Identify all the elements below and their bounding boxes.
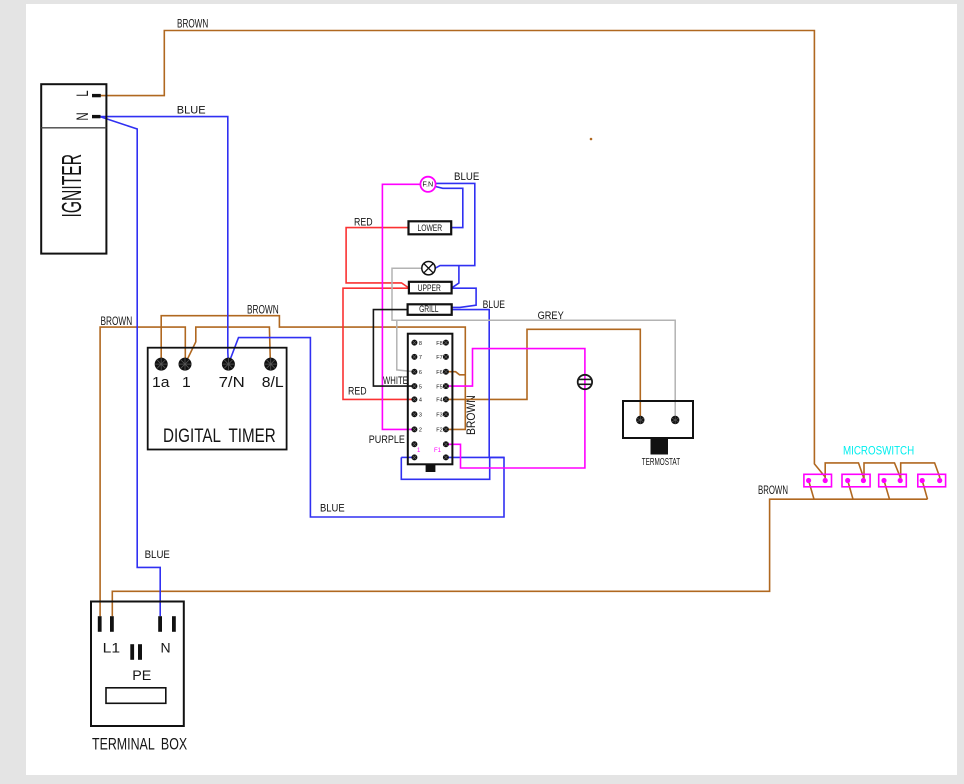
svg-text:BROWN: BROWN <box>101 316 133 329</box>
label BLUE (terminal box) <box>145 550 170 562</box>
svg-text:RED: RED <box>348 385 367 397</box>
svg-text:IGNITER: IGNITER <box>56 154 87 218</box>
svg-text:7: 7 <box>419 355 422 361</box>
timer terminal 8/L <box>262 358 284 391</box>
microswitch SW3 <box>879 474 907 487</box>
label GREY <box>538 310 564 322</box>
svg-text:LOWER: LOWER <box>417 223 442 233</box>
grill element GRILL <box>408 304 452 315</box>
wire blue igniter N to timer 7/N <box>100 117 228 365</box>
label BLUE (grill) <box>483 299 506 311</box>
svg-text:TERMINAL BOX: TERMINAL BOX <box>92 736 187 754</box>
svg-text:F4: F4 <box>436 398 442 404</box>
svg-text:F8: F8 <box>436 341 442 347</box>
terminal box terminal L1 pair <box>98 616 120 656</box>
label BLUE (igniter) <box>177 105 206 117</box>
wire brown connector pin F4 to thermostat left terminal <box>446 329 640 420</box>
terminal box <box>91 602 187 755</box>
wire brown timer terminal 1a to connector pins F6/F2 <box>161 316 465 430</box>
wire grey lamp to thermostat right terminal <box>392 268 675 420</box>
wire red LOWER left to UPPER left <box>346 228 409 288</box>
svg-text:BLUE: BLUE <box>145 550 170 562</box>
lamp <box>422 262 435 275</box>
wire grey branch to connector pin 6 <box>397 320 415 371</box>
svg-text:BROWN: BROWN <box>177 18 208 31</box>
svg-text:F7: F7 <box>436 355 442 361</box>
svg-text:L: L <box>74 90 93 96</box>
svg-text:BLUE: BLUE <box>483 299 506 311</box>
label BLUE (bottom loop) <box>320 503 345 515</box>
timer terminal 7/N <box>219 358 245 391</box>
label BROWN (rotated, right of connector) <box>466 395 479 435</box>
svg-text:8: 8 <box>419 341 422 347</box>
svg-text:F6: F6 <box>436 370 442 376</box>
digital timer box <box>148 348 287 450</box>
svg-text:PE: PE <box>132 667 151 683</box>
svg-text:6: 6 <box>419 370 422 376</box>
connector block <box>408 334 453 472</box>
wire red UPPER left to connector pin 4 <box>343 288 414 399</box>
svg-text:L1: L1 <box>103 641 120 656</box>
thermostat <box>623 401 693 467</box>
svg-text:N: N <box>161 640 171 656</box>
connector pins right column <box>434 340 449 461</box>
label BROWN (microswitch) <box>758 485 788 498</box>
wire blue fan FN to LOWER right <box>436 187 463 228</box>
wire brown microswitch chain bottom to terminal box <box>112 481 814 617</box>
svg-text:UPPER: UPPER <box>418 283 441 293</box>
svg-text:BLUE: BLUE <box>177 105 206 117</box>
wire black GRILL left to connector pin 5 <box>373 310 414 387</box>
svg-text:PURPLE: PURPLE <box>369 434 405 446</box>
svg-text:MICROSWITCH: MICROSWITCH <box>843 445 914 458</box>
svg-text:BROWN: BROWN <box>758 485 788 498</box>
label BLUE (fan) <box>454 172 479 184</box>
svg-text:1: 1 <box>182 374 191 391</box>
wire brown connector pin F6 jog to vertical <box>446 372 465 375</box>
wire blue GRILL right down to connector bottom <box>452 310 489 458</box>
svg-text:BLUE: BLUE <box>320 503 345 515</box>
timer terminal 1 <box>179 358 192 391</box>
svg-text:DIGITAL TIMER: DIGITAL TIMER <box>163 424 276 446</box>
wire brown microswitch bottom bridges <box>814 481 928 500</box>
label PURPLE <box>369 434 405 446</box>
svg-text:1a: 1a <box>152 374 170 391</box>
wire brown mains L from igniter to top rail and down to microswitch feed <box>100 31 825 481</box>
microswitch SW1 <box>804 474 832 487</box>
svg-text:GREY: GREY <box>538 310 564 322</box>
fan FN <box>420 177 435 192</box>
svg-text:2: 2 <box>419 428 422 434</box>
wire blue fan FN to lamp <box>435 183 475 268</box>
label BROWN (above timer) <box>247 304 279 317</box>
label WHITE <box>383 375 408 388</box>
connector pins left column <box>411 340 422 461</box>
svg-text:F5: F5 <box>436 384 442 390</box>
wire brown timer terminal 1 to terminal 8/L <box>185 327 270 364</box>
wire blue timer 7/N to bottom loop <box>228 338 504 517</box>
wire brown mains feed down-left to terminal box L1 and to timer terminal 1 <box>100 327 185 616</box>
label MICROSWITCH <box>843 445 914 458</box>
svg-text:RED: RED <box>354 216 373 228</box>
terminal box terminal PE pair <box>130 644 151 683</box>
svg-text:8/L: 8/L <box>262 374 284 391</box>
wire magenta connector pin F5 through thermal fuse to connector bottom pin <box>446 349 585 468</box>
microswitch SW4 <box>918 474 946 487</box>
svg-text:F2: F2 <box>436 428 442 434</box>
wire brown microswitch top bridges <box>825 463 940 481</box>
microswitch SW2 <box>842 474 870 487</box>
igniter box <box>41 84 106 253</box>
wire blue UPPER right to GRILL right <box>452 288 476 307</box>
svg-text:F3: F3 <box>436 413 442 419</box>
svg-text:F1: F1 <box>434 448 442 454</box>
heating element UPPER <box>409 282 452 294</box>
label BROWN (left) <box>101 316 133 329</box>
wire blue connector bottom pins loop <box>401 457 504 479</box>
heating element LOWER <box>409 221 452 234</box>
wire purple fan FN to connector pin 2 <box>382 184 420 429</box>
svg-text:BROWN: BROWN <box>247 304 279 317</box>
wire blue branch to UPPER right <box>452 266 459 288</box>
svg-text:F.N: F.N <box>422 180 433 189</box>
svg-text:WHITE: WHITE <box>383 375 408 388</box>
svg-text:BLUE: BLUE <box>454 172 479 184</box>
label RED (top) <box>354 216 373 228</box>
svg-text:7/N: 7/N <box>219 375 245 391</box>
svg-text:3: 3 <box>419 413 422 419</box>
thermal fuse <box>578 375 592 389</box>
stray plot dot <box>590 138 593 141</box>
wire blue igniter N to terminal box N <box>100 117 160 617</box>
timer terminal 1a <box>152 358 170 391</box>
terminal box terminal N pair <box>158 616 176 655</box>
svg-text:BROWN: BROWN <box>466 395 479 435</box>
svg-text:N: N <box>74 112 93 120</box>
svg-text:4: 4 <box>419 398 422 404</box>
igniter terminal N <box>74 112 100 120</box>
label BROWN (top) <box>177 18 208 31</box>
svg-text:GRILL: GRILL <box>419 304 439 314</box>
svg-text:5: 5 <box>419 384 422 390</box>
svg-text:TERMOSTAT: TERMOSTAT <box>642 455 680 467</box>
label RED (bottom) <box>348 385 367 397</box>
igniter terminal L <box>74 90 101 96</box>
